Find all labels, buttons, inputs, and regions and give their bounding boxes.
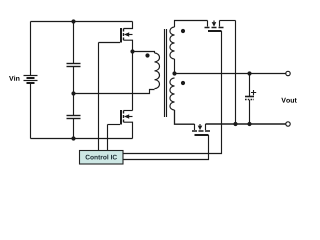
wire midpoint to C2 bbox=[73, 94, 75, 116]
transformer T1 primary winding bbox=[155, 53, 160, 89]
node center tap junction bbox=[172, 71, 176, 75]
wire secondary lower terminal to SR2 bbox=[175, 110, 195, 124]
transistor SR2 (bottom synchronous rectifier) bbox=[192, 124, 210, 135]
wire output cap top bbox=[249, 74, 251, 97]
wire top rail (Vin+ to Q1 drain) bbox=[31, 21, 133, 23]
label Vout bbox=[281, 98, 296, 103]
transformer T1 core bbox=[165, 29, 167, 117]
wire between C1 and midpoint bbox=[73, 67, 75, 94]
terminal Vout+ bbox=[286, 71, 290, 75]
transistor Q1 (high-side MOSFET) bbox=[121, 22, 133, 52]
transistor Q2 (low-side MOSFET) bbox=[121, 110, 133, 139]
capacitor C1 (upper divider cap) bbox=[67, 64, 81, 67]
wire SR1 gate down to control IC bbox=[124, 31, 222, 154]
wire bottom rail bbox=[31, 138, 133, 140]
wire secondary top terminal bbox=[175, 21, 208, 28]
wire output rail A (center tap to Vout+) bbox=[175, 73, 286, 75]
node switch node (Q1 source / Q2 drain / primary) bbox=[130, 49, 134, 53]
wire SR1 output down to rail B bbox=[235, 21, 237, 125]
wire output cap bottom bbox=[249, 100, 251, 124]
node Cout on rail B bbox=[247, 122, 251, 126]
node rail B junction with SR1 output bbox=[233, 122, 237, 126]
wire SR2 gate down to control IC bbox=[124, 135, 209, 160]
wire SR1 output (top) bbox=[220, 20, 236, 22]
node primary polarity dot bbox=[145, 53, 149, 57]
op-amp U1 Control IC box bbox=[80, 151, 124, 165]
capacitor Cout (output electrolytic) bbox=[245, 90, 256, 100]
node junction bottom rail / cap column bbox=[71, 136, 75, 140]
wire output rail B (SR2 to Vout-) bbox=[206, 123, 286, 125]
transformer T1 secondary lower winding bbox=[170, 78, 175, 110]
wire secondary spine to center tap bbox=[174, 59, 176, 74]
capacitor C2 (lower divider cap) bbox=[67, 116, 81, 119]
node secondary upper polarity dot bbox=[181, 29, 185, 33]
wire left vertical from top rail to battery bbox=[30, 22, 32, 76]
wire Q1 gate down to control IC bbox=[98, 43, 100, 151]
wire input cap column upper bbox=[73, 22, 75, 64]
wire switch node down to Q2 drain bbox=[132, 52, 134, 111]
wire battery negative to bottom rail bbox=[30, 84, 32, 139]
wire C2 to bottom rail bbox=[73, 119, 75, 139]
terminal Vout- bbox=[286, 122, 290, 126]
node secondary lower polarity dot bbox=[181, 81, 185, 85]
label Vin bbox=[9, 76, 19, 81]
wire switch node to primary top bbox=[133, 52, 155, 54]
wire Q1 gate lead bbox=[99, 42, 121, 44]
battery Vin bbox=[24, 76, 38, 84]
wire Q2 gate lead bbox=[108, 124, 121, 126]
node junction cap midpoint bbox=[71, 91, 75, 95]
transformer T1 secondary upper winding bbox=[170, 27, 175, 59]
node junction top rail / cap column bbox=[71, 19, 75, 23]
transistor SR1 (top synchronous rectifier) bbox=[205, 21, 224, 32]
node Cout on rail A bbox=[247, 71, 251, 75]
wire primary return (cap midpoint to transformer primary bottom) bbox=[74, 90, 155, 94]
wire Q2 gate down to control IC bbox=[107, 125, 109, 151]
